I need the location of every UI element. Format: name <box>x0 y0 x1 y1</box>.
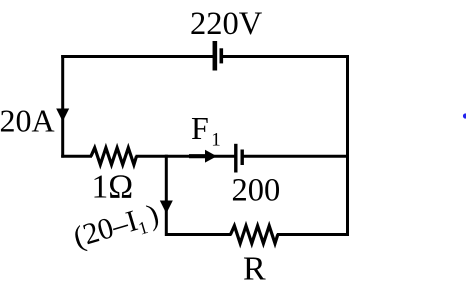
cell F1 short plate <box>240 150 243 166</box>
svg-text:20A: 20A <box>0 103 55 139</box>
arrow 20A current direction <box>56 109 69 122</box>
label (20-I1) rotated <box>70 198 164 257</box>
wire top-left segment <box>61 55 215 58</box>
wire right vertical <box>346 55 349 236</box>
arrow branch current direction <box>160 201 173 214</box>
wire top-right segment <box>221 55 349 58</box>
svg-text:F: F <box>191 110 209 146</box>
svg-text:(20–I: (20–I <box>70 204 142 254</box>
resistor 1-ohm zigzag <box>91 148 137 165</box>
resistor R zigzag <box>231 226 278 244</box>
wire bottom-right segment <box>277 233 349 236</box>
arrow F1 current direction <box>189 154 206 158</box>
cell F1 long plate <box>234 144 237 173</box>
wire middle-right segment <box>242 155 349 158</box>
wire bottom-left segment <box>166 233 231 236</box>
battery 220V long plate <box>213 41 218 71</box>
svg-text:1: 1 <box>211 130 221 151</box>
wire branch vertical <box>165 156 168 236</box>
blue mark at right edge <box>463 113 466 118</box>
svg-text:200: 200 <box>232 173 281 209</box>
wire middle-left segment <box>61 155 92 158</box>
svg-text:R: R <box>243 251 266 288</box>
svg-text:1Ω: 1Ω <box>92 169 134 206</box>
svg-text:220V: 220V <box>190 6 263 42</box>
battery 220V short plate <box>220 48 224 63</box>
wire middle node segment <box>136 155 235 158</box>
wire left vertical <box>61 55 64 158</box>
node junction T <box>165 155 168 158</box>
